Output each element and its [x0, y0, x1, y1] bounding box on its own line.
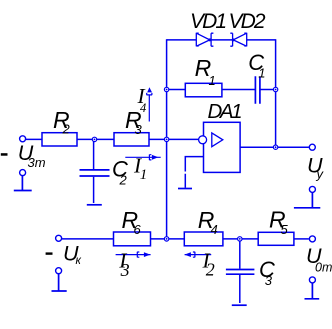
resistor R1: [185, 83, 222, 97]
wire output node to Uy terminal: [276, 146, 309, 148]
ground under Uy: [294, 193, 320, 208]
svg-text:к: к: [76, 255, 82, 267]
wire Uk terminal to R6: [61, 238, 113, 240]
svg-text:3: 3: [120, 260, 130, 280]
current arrow I2: [184, 252, 211, 258]
node R2/R3/C2 junction: [92, 137, 96, 141]
ground under Uk: [52, 273, 67, 291]
svg-text:0m: 0m: [315, 260, 332, 274]
resistor R6: [114, 232, 151, 246]
terminal U3m: [20, 136, 26, 142]
capacitor C1: [255, 76, 260, 104]
label minus Uk: [46, 252, 53, 254]
capacitor C3: [226, 270, 255, 275]
current arrow I3: [116, 252, 151, 258]
node left bus / bottom row junction: [164, 237, 168, 241]
svg-text:VD1: VD1: [190, 10, 227, 33]
diode VD1: [196, 33, 213, 47]
current arrow I4: [147, 87, 153, 121]
svg-text:4: 4: [140, 101, 146, 115]
wire R6 to R4: [151, 238, 185, 240]
resistor R3: [114, 133, 149, 146]
terminal Uk ground side: [56, 268, 62, 274]
capacitor C2: [80, 170, 110, 176]
svg-text:5: 5: [281, 222, 289, 237]
label minus U3m: [1, 153, 8, 156]
resistor R2: [42, 133, 77, 146]
svg-text:6: 6: [134, 222, 142, 237]
terminal Uk: [56, 235, 62, 241]
wire R1 to C1: [222, 89, 256, 91]
wire R5 to U0m terminal: [294, 238, 309, 240]
op-amp U1 DA1 body: [204, 122, 241, 172]
wire top loop left segment: [167, 39, 197, 41]
ground under U3m: [14, 176, 32, 191]
op-amp DA1 triangle: [212, 133, 223, 147]
wire node to C2: [93, 139, 95, 169]
wire R4 to R5: [223, 238, 258, 240]
svg-text:2: 2: [206, 259, 215, 279]
ground under C3: [232, 304, 247, 306]
wire op-amp output to right bus node: [240, 146, 276, 148]
svg-text:4: 4: [211, 222, 218, 237]
terminal U0m ground side: [309, 277, 315, 283]
svg-text:y: y: [316, 167, 325, 182]
diode VD2: [230, 33, 246, 47]
resistor R5: [258, 232, 294, 245]
wire node to C3: [239, 239, 241, 269]
wire C3 to ground: [239, 275, 241, 303]
svg-text:2: 2: [119, 173, 128, 188]
wire between VD1 and VD2: [211, 39, 233, 41]
wire R2 to R3: [77, 138, 114, 140]
node output junction: [273, 145, 277, 149]
wire right vertical bus: [275, 39, 277, 147]
ground under C2: [87, 204, 102, 206]
node R4/R5/C3 junction: [238, 237, 242, 241]
wire C2 to ground: [93, 177, 95, 203]
wire top loop right segment: [247, 39, 276, 41]
resistor R4: [184, 232, 223, 246]
terminal Uy: [309, 144, 315, 150]
wire C1 to right bus: [260, 89, 276, 91]
terminal U3m ground side: [20, 170, 26, 176]
svg-text:3: 3: [265, 273, 273, 288]
terminal U0m: [309, 236, 315, 242]
svg-text:DA1: DA1: [208, 100, 243, 123]
current arrow I1: [125, 155, 160, 161]
ground under U0m: [305, 283, 320, 299]
node left bus / feedback row junction: [164, 87, 168, 91]
svg-text:1: 1: [209, 73, 216, 88]
svg-text:2: 2: [62, 122, 71, 137]
op-amp DA1 inversion bubble: [199, 136, 207, 144]
wire R3 to left bus: [149, 138, 167, 140]
wire U3m terminal to R2: [25, 138, 42, 140]
wire op-amp noninverting input to ground: [185, 157, 203, 188]
node left bus / input row junction: [164, 137, 168, 141]
svg-text:1: 1: [140, 167, 148, 183]
terminal Uy ground side: [309, 186, 315, 192]
svg-text:3m: 3m: [28, 155, 46, 170]
node right bus / feedback row junction: [273, 87, 277, 91]
wire feedback row: bus to R1: [167, 89, 186, 91]
ground at op-amp noninverting input: [178, 188, 192, 190]
svg-text:1: 1: [258, 66, 265, 81]
svg-text:VD2: VD2: [229, 10, 266, 33]
wire left vertical bus: [166, 39, 168, 239]
wire bus to op-amp inverting input: [167, 138, 199, 140]
svg-text:3: 3: [135, 122, 143, 137]
